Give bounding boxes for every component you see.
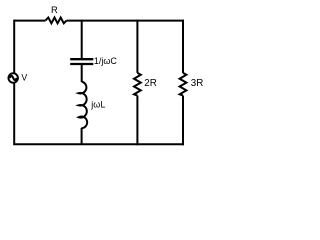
resistor 3R	[180, 73, 187, 96]
svg-text:2R: 2R	[144, 78, 157, 89]
capacitor 1/jwC	[70, 59, 93, 64]
wire: middle branch upper	[81, 20, 83, 59]
wire: right rail upper	[182, 20, 184, 73]
svg-text:1/jωC: 1/jωC	[94, 56, 118, 66]
svg-text:R: R	[51, 4, 58, 15]
svg-text:jωL: jωL	[90, 99, 105, 109]
wire: 2R branch upper	[136, 20, 138, 73]
wire: cap to coil	[81, 65, 83, 82]
source V	[9, 73, 18, 82]
wire: coil to bottom	[81, 128, 83, 144]
wire: bottom rail	[13, 143, 184, 145]
wire: top rail left segment	[14, 20, 45, 22]
resistor R	[46, 18, 67, 24]
wire: left rail lower	[13, 83, 15, 145]
inductor jwL	[79, 82, 88, 129]
wire: left rail upper	[13, 20, 15, 74]
wire: top rail right segment	[67, 20, 184, 22]
resistor 2R	[134, 73, 141, 96]
svg-text:V: V	[21, 73, 27, 83]
svg-text:3R: 3R	[191, 78, 204, 89]
wire: right rail lower	[182, 96, 184, 146]
wire: 2R branch lower	[136, 96, 138, 146]
